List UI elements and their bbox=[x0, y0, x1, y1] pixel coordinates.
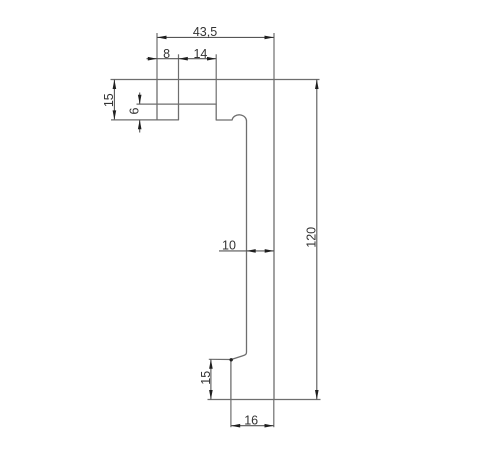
dimension 43,5 extension line left x=157 bbox=[156, 33, 158, 80]
dimension 8/14 line bbox=[147, 58, 217, 60]
dimension 15 bottom extension line (y=119.9) bbox=[111, 119, 157, 121]
dimension 8/14 shared arrow at x=178.5 bbox=[179, 57, 188, 61]
top extension line left (y=79.5) bbox=[111, 79, 158, 81]
dimension 16 line bbox=[231, 425, 274, 427]
svg-text:10: 10 bbox=[222, 238, 236, 252]
svg-text:15: 15 bbox=[102, 93, 116, 107]
dimension 43,5 extension line right x=274 bbox=[273, 33, 275, 80]
profile outline bbox=[157, 80, 274, 400]
dimension 15 (bottom) line bbox=[210, 359, 212, 399]
dimension 120 line bbox=[316, 80, 318, 400]
dimension 14 right arrow bbox=[207, 57, 216, 61]
svg-text:16: 16 bbox=[244, 413, 258, 427]
dimension 10 line bbox=[219, 250, 274, 252]
dimension 8 left arrow (outside) bbox=[148, 57, 157, 61]
svg-text:43,5: 43,5 bbox=[193, 25, 217, 39]
dimension 6 extension line (y=104.1) bbox=[137, 103, 179, 105]
dimension 16 extension line left x=230.9 bbox=[230, 400, 232, 428]
dimension 43,5 right arrow bbox=[265, 36, 275, 40]
bottom extension line right (y=399.5) bbox=[274, 399, 321, 401]
dimension 15 top arrow bbox=[113, 80, 117, 90]
svg-text:120: 120 bbox=[305, 227, 319, 248]
dimension 8/14 extension line x=178.5 bbox=[178, 54, 180, 104]
top extension line right (y=79.5) bbox=[274, 79, 320, 81]
corner dot at bottom-left kink bbox=[230, 358, 233, 361]
svg-text:6: 6 bbox=[127, 107, 141, 114]
bottom extension line left (y=399.5) bbox=[208, 399, 231, 401]
dimension 6 top arrow (outside, pointing down) bbox=[139, 93, 141, 105]
dimension 120 top arrow bbox=[315, 80, 319, 90]
svg-text:15: 15 bbox=[199, 371, 213, 385]
dimension 15 (bottom) top arrow bbox=[209, 359, 213, 369]
dimension 8/14 extension line x=216.2 bbox=[215, 54, 217, 104]
dimension 15 (bottom) extension line (y=359.3) bbox=[209, 358, 231, 360]
svg-text:8: 8 bbox=[163, 47, 170, 61]
dimension 120 bottom arrow bbox=[315, 390, 319, 400]
dimension 15 (top left) line bbox=[113, 80, 115, 120]
dimension 15 (bottom) bottom arrow bbox=[209, 390, 213, 400]
dimension 16 extension line right x=273.8 bbox=[273, 400, 275, 428]
dimension 16 right arrow bbox=[265, 424, 274, 428]
dimension 43,5 left arrow bbox=[157, 36, 167, 40]
dimension 10 right arrow bbox=[265, 249, 274, 253]
dimension 10 left arrow bbox=[246, 249, 255, 253]
dimension 43,5 line bbox=[157, 36, 274, 38]
dimension 16 left arrow bbox=[231, 424, 240, 428]
dimension 6 bottom arrow (outside, pointing up) bbox=[139, 120, 141, 133]
dimension 15 bottom arrow bbox=[113, 110, 117, 120]
svg-text:14: 14 bbox=[193, 47, 207, 61]
